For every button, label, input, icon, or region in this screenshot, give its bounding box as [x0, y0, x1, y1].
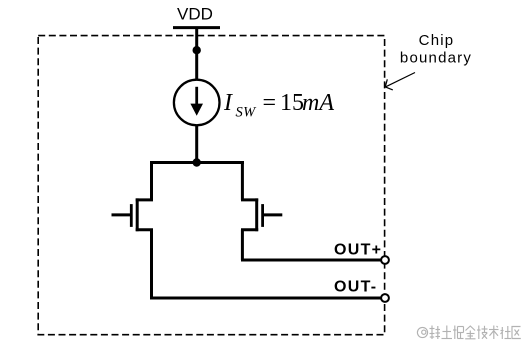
transistor M2 (right)	[241, 161, 282, 260]
wire VDD to current source	[195, 28, 198, 81]
土	[442, 326, 453, 339]
社	[501, 326, 512, 339]
svg-text:SW: SW	[236, 105, 258, 121]
金	[465, 326, 475, 339]
svg-text:OUT-: OUT-	[334, 279, 377, 296]
wire current source to tail node	[195, 125, 198, 164]
current source arrow	[195, 87, 198, 106]
M1 source lead	[150, 161, 153, 200]
M2 drain lead down	[241, 230, 244, 260]
VDD supply bar	[173, 26, 220, 29]
技	[477, 326, 488, 340]
chip boundary dashed box	[38, 36, 384, 335]
svg-text:VDD: VDD	[177, 5, 213, 24]
掘	[453, 326, 464, 340]
区	[512, 327, 521, 339]
svg-text:I: I	[223, 90, 233, 116]
watermark	[417, 326, 520, 340]
svg-text:Chip: Chip	[419, 32, 455, 49]
svg-text:OUT+: OUT+	[334, 242, 382, 259]
OUT+ terminal	[381, 256, 389, 264]
M1 bottom stub	[136, 228, 153, 231]
svg-text:=: =	[263, 90, 277, 116]
current source I1 circle	[174, 80, 220, 126]
node junction dot on boundary	[193, 46, 201, 54]
术	[489, 326, 499, 340]
svg-text:boundary: boundary	[400, 50, 472, 67]
top rail wire	[150, 161, 244, 164]
M2 gate bar	[261, 204, 264, 227]
svg-text:mA: mA	[302, 90, 334, 116]
OUT- wire	[150, 297, 381, 300]
tail node junction dot	[193, 158, 201, 166]
M1 channel bar	[136, 198, 139, 231]
label ISW = 15mA	[223, 90, 334, 121]
M2 top stub	[241, 198, 258, 201]
svg-text:15: 15	[280, 90, 304, 116]
M2 channel bar	[255, 198, 258, 231]
OUT+ wire	[241, 259, 381, 262]
M2 gate lead	[264, 213, 282, 216]
M1 drain lead down	[150, 230, 153, 298]
@	[417, 327, 427, 337]
M1 gate bar	[130, 204, 133, 227]
transistor M1 (left)	[112, 161, 154, 298]
M1 top stub	[136, 198, 153, 201]
稀	[430, 326, 441, 340]
M1 gate lead	[112, 213, 131, 216]
M2 bottom stub	[241, 228, 258, 231]
M2 source lead	[241, 161, 244, 200]
OUT- terminal	[381, 294, 389, 302]
annotation arrow to boundary	[385, 73, 415, 90]
